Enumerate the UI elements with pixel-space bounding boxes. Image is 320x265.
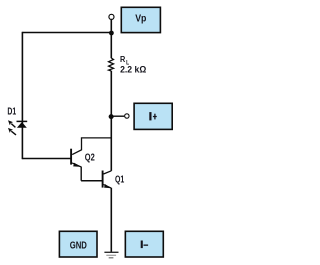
transistor Q2 base wire	[22, 158, 71, 160]
ground bar 3	[109, 257, 114, 258]
wire main vertical mid segment	[110, 71, 112, 171]
terminal circle I+	[125, 114, 129, 118]
transistor Q1 collector	[104, 171, 112, 174]
ground bar 1	[104, 252, 118, 253]
transistor Q2 emitter	[72, 163, 81, 167]
photodiode D1 triangle	[17, 122, 27, 128]
terminal box Vp	[121, 7, 160, 32]
terminal circle Vp	[109, 14, 114, 19]
terminal box GND	[59, 231, 97, 257]
svg-text:GND: GND	[70, 241, 88, 252]
transistor Q1 emitter arrow	[104, 184, 111, 188]
svg-text:2.2 kΩ: 2.2 kΩ	[120, 64, 146, 74]
label I+	[149, 112, 151, 120]
transistor Q2 emitter arrow	[73, 163, 81, 167]
svg-text:R: R	[120, 54, 126, 64]
wire top horizontal (Vp rail)	[22, 32, 111, 34]
photodiode D1 cathode bar	[17, 120, 28, 122]
transistor Q2 base bar	[70, 149, 72, 165]
light arrow 1	[8, 120, 15, 127]
label I- minus sign	[144, 245, 149, 246]
transistor Q1 emitter	[104, 185, 112, 189]
wire Q2 emitter to Q1 base	[81, 180, 103, 182]
svg-text:D1: D1	[7, 107, 16, 118]
node junction top	[109, 31, 114, 36]
light arrow 2	[8, 128, 16, 135]
terminal box I-	[125, 231, 163, 257]
wire Q1 emitter to ground	[110, 188, 112, 252]
wire to I+ terminal	[111, 115, 124, 117]
svg-text:Q1: Q1	[115, 175, 125, 186]
transistor Q2 collector	[72, 138, 111, 155]
wire left rail	[21, 32, 23, 159]
ground bar 2	[106, 255, 116, 256]
wire Q2 emitter down	[80, 167, 82, 181]
svg-text:Vp: Vp	[135, 14, 146, 25]
terminal box I+	[134, 103, 172, 129]
svg-text:Q2: Q2	[85, 153, 95, 164]
wire main vertical top segment	[110, 20, 112, 58]
resistor RL	[109, 58, 114, 71]
node junction I+	[109, 114, 114, 119]
label I+ plus sign	[153, 116, 157, 117]
transistor Q1 base bar	[102, 171, 104, 188]
label I-	[141, 241, 143, 249]
